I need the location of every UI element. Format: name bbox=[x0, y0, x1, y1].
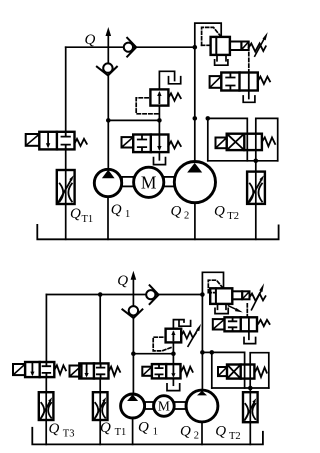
svg-text:Q: Q bbox=[117, 273, 128, 289]
pump Q1b bbox=[121, 394, 145, 418]
shaft coupling left (bottom) bbox=[145, 402, 153, 409]
node junction dot QT2 loop bbox=[206, 116, 211, 121]
wire SV1 to throttle bbox=[65, 149, 67, 170]
RV1b drain arrow bbox=[228, 306, 237, 310]
wire pump Q1b to tank bbox=[132, 418, 134, 444]
svg-text:T1: T1 bbox=[115, 427, 127, 438]
wire: left branch vertical bbox=[65, 47, 67, 132]
svg-text:T3: T3 bbox=[63, 429, 75, 440]
solenoid valve SV2 (middle unloading valve) bbox=[122, 137, 134, 147]
svg-text:Q: Q bbox=[70, 206, 81, 222]
wire: pump Q1 feed line bbox=[107, 75, 109, 169]
wire QT1b throttle to tank bbox=[99, 420, 101, 444]
throttle valve QT1 bbox=[57, 170, 75, 204]
node junction dot QT1 branch bbox=[98, 292, 103, 297]
solenoid valve VT1 bbox=[70, 366, 82, 377]
RV1 adjustable spring bbox=[249, 44, 266, 52]
pump Q2b bbox=[186, 390, 218, 422]
shaft coupling right bbox=[164, 177, 174, 187]
wire pump Q2 to tank bbox=[194, 203, 196, 240]
relief valve RV1 (pilot operated, top right) bbox=[202, 27, 221, 45]
wire: feed to pilot relief RV1 bbox=[195, 23, 221, 47]
wire: riser to relief valve RV2b bbox=[172, 342, 174, 364]
motor Mb bbox=[154, 396, 175, 417]
solenoid valve SV1 (left unloading valve) bbox=[26, 134, 40, 146]
wire: far-left branch vertical (QT3) bbox=[45, 295, 47, 363]
wire: main horizontal line y=294.5 bbox=[46, 294, 202, 296]
svg-text:Q: Q bbox=[111, 202, 122, 218]
wire: main horizontal line y=47.2 bbox=[66, 46, 195, 48]
throttle valve QT1b bbox=[93, 392, 108, 420]
svg-text:Q: Q bbox=[214, 204, 225, 220]
throttle valve QT3 bbox=[39, 392, 54, 420]
wire: riser to relief valve RV2 bbox=[158, 106, 160, 135]
RV2 dashed pilot line bbox=[136, 98, 158, 114]
node junction dot pump Q1 line bbox=[106, 118, 111, 123]
RV1 drain bbox=[217, 55, 226, 61]
svg-text:M: M bbox=[141, 172, 157, 192]
check valve CV2 (vertical, under Q junction) bbox=[107, 47, 109, 63]
svg-text:T1: T1 bbox=[82, 214, 94, 225]
pump Q2 bbox=[174, 162, 215, 203]
relief valve RV1b (pilot operated, bottom right) bbox=[208, 280, 222, 292]
svg-text:Q: Q bbox=[180, 424, 191, 440]
node junction dot at relief valve riser (bottom circuit) bbox=[171, 351, 176, 356]
wire QT2b branch loop A bbox=[212, 352, 245, 388]
wire: branch to relief/unloader (bottom circuit) bbox=[133, 353, 173, 355]
wire: main right line (bottom) bbox=[201, 295, 203, 391]
throttle valve QT2 bbox=[255, 161, 257, 172]
wire: feed to pilot relief RV1b bbox=[202, 272, 223, 294]
node junction dot throttle QT2 bbox=[254, 159, 259, 164]
shaft coupling left bbox=[122, 177, 133, 187]
wire: QT1 branch vertical bbox=[99, 295, 101, 364]
svg-text:Q: Q bbox=[215, 424, 226, 440]
wire pump Q1 to tank bbox=[107, 197, 109, 240]
SV3 drain bbox=[248, 91, 250, 99]
solenoid valve VT3 (far left) bbox=[13, 364, 25, 375]
svg-text:1: 1 bbox=[125, 209, 130, 220]
svg-text:Q: Q bbox=[85, 32, 96, 48]
wire bottom line of QT2 branch bbox=[208, 160, 278, 162]
wire throttle QT1 to tank bbox=[65, 204, 67, 239]
tank line (bottom circuit) bbox=[32, 428, 263, 445]
svg-text:T2: T2 bbox=[229, 431, 241, 442]
svg-text:1: 1 bbox=[153, 427, 158, 438]
wire bottom line of QT2b branch bbox=[212, 387, 269, 389]
svg-text:M: M bbox=[158, 399, 170, 414]
shaft coupling right (bottom) bbox=[174, 402, 185, 409]
node junction dot QT2b loop bbox=[210, 350, 215, 355]
svg-text:2: 2 bbox=[184, 211, 189, 222]
SV1b drain bbox=[248, 331, 250, 339]
node junction dot main line top bbox=[193, 45, 198, 50]
pump Q1 bbox=[94, 169, 121, 196]
check valve CV1 (horizontal, top line) bbox=[124, 43, 133, 52]
RV2b drain to tank bbox=[173, 320, 184, 329]
solenoid valve SV1b (bottom right) bbox=[213, 319, 225, 329]
RV1 remote pilot dashed line bbox=[248, 53, 250, 73]
svg-text:2: 2 bbox=[194, 431, 199, 442]
wire: main right line bbox=[194, 47, 196, 161]
check valve CV1b (horizontal) bbox=[146, 290, 155, 299]
RV2b dashed pilot bbox=[153, 337, 171, 351]
relief valve RV2b (direct, middle bottom) bbox=[166, 329, 182, 343]
node junction dot main line QT2b branch bbox=[200, 350, 205, 355]
motor M bbox=[134, 167, 164, 197]
svg-text:Q: Q bbox=[171, 204, 182, 220]
node junction dot throttle QT2b bbox=[248, 386, 253, 391]
QT2b branch loop B bbox=[250, 353, 269, 388]
wire QT3 throttle to tank bbox=[45, 420, 47, 444]
throttle valve QT2b bbox=[249, 388, 251, 392]
SV2 drain to tank symbol bbox=[158, 152, 160, 160]
node Q output arrow (bottom) bbox=[132, 278, 134, 294]
node junction dot main line top (bottom circuit) bbox=[200, 292, 205, 297]
QT2 branch loop B bbox=[256, 118, 278, 160]
svg-text:T2: T2 bbox=[227, 211, 239, 222]
wire: pump Q1b feed line bbox=[132, 318, 134, 394]
wire QT2b throttle to tank bbox=[249, 422, 251, 444]
relief valve RV2 (direct, middle) bbox=[150, 89, 168, 105]
svg-text:Q: Q bbox=[138, 420, 149, 436]
RV2 drain to tank bbox=[159, 71, 174, 89]
wire QT2 branch loop A bbox=[208, 118, 248, 160]
SV2b drain bbox=[172, 378, 174, 385]
RV1b drain bbox=[218, 304, 227, 309]
solenoid valve SV4b (QT2b branch) bbox=[218, 367, 227, 376]
solenoid valve SV3 (top right) bbox=[210, 76, 222, 88]
tank line (top circuit) bbox=[37, 225, 278, 239]
node junction dot pump Q1b line bbox=[131, 351, 136, 356]
wire QT2 throttle to tank bbox=[255, 204, 257, 239]
svg-text:Q: Q bbox=[49, 421, 60, 437]
node Q output arrow bbox=[107, 35, 109, 48]
wire VT3 to throttle bbox=[45, 377, 47, 392]
wire QT2b branch stub bbox=[202, 351, 211, 353]
check valve CV2b (vertical under Q junction) bbox=[132, 295, 134, 307]
solenoid valve SV4 (QT2 branch) bbox=[216, 138, 227, 149]
wire VT1 to throttle bbox=[99, 379, 101, 393]
solenoid valve SV2b (middle bottom) bbox=[142, 367, 152, 376]
svg-text:Q: Q bbox=[100, 420, 111, 436]
RV1b adjustable spring bbox=[250, 294, 266, 301]
RV1b remote pilot dashed line bbox=[246, 304, 248, 317]
wire: branch to relief/unloader bbox=[108, 119, 159, 121]
node junction dot main line QT2 branch bbox=[193, 116, 198, 121]
node junction dot at relief valve riser bbox=[157, 118, 162, 123]
wire pump Q2b to tank bbox=[201, 422, 203, 445]
